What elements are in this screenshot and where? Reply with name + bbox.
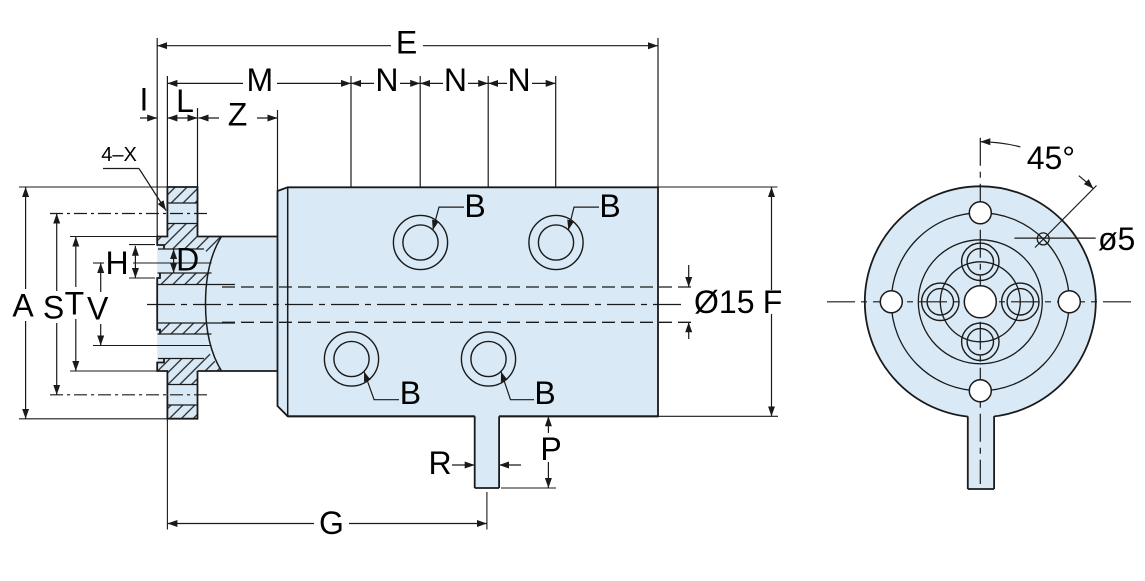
svg-text:4–X: 4–X bbox=[101, 144, 137, 166]
hatching: flange ring bottom bbox=[167, 405, 197, 419]
leader line ø5 bbox=[1014, 237, 1095, 239]
internal bore line D2 top bbox=[158, 333, 212, 335]
svg-text:P: P bbox=[540, 431, 561, 467]
neck top and bottom edges bbox=[198, 236, 278, 238]
leader 4-X bbox=[103, 168, 139, 170]
internal bore line V top (gap at H label) bbox=[93, 262, 104, 264]
small hole ø5 at 45deg bbox=[1037, 233, 1049, 245]
vertical centerline (right view) bbox=[979, 138, 981, 484]
counterbored hole B bottom-left bbox=[324, 332, 378, 386]
extension line G right (pipe center) bbox=[486, 492, 488, 530]
svg-text:B: B bbox=[534, 375, 555, 411]
bolt hole centerline top (dash-dot) bbox=[50, 213, 209, 215]
leader B bottom-left bbox=[364, 372, 399, 400]
extension line x167.4 bbox=[166, 76, 168, 187]
flange outer circle bbox=[865, 186, 1096, 417]
dimension F line bbox=[771, 187, 773, 290]
body bottom edge (interrupted at pipe) bbox=[288, 415, 475, 417]
extension line H top bbox=[129, 244, 155, 246]
dimension D double arrow bbox=[173, 249, 175, 273]
bottom port pipe (left view) bbox=[475, 413, 499, 488]
svg-text:Z: Z bbox=[228, 97, 248, 133]
45 degree radial line bbox=[1035, 186, 1097, 248]
extension line A top bbox=[19, 186, 167, 188]
internal bore step line lower bbox=[158, 322, 235, 324]
svg-text:V: V bbox=[87, 291, 109, 327]
hidden bore line top (dashed) bbox=[222, 286, 693, 288]
extension line G left bbox=[166, 420, 168, 530]
counterbored hole B bottom-right bbox=[461, 332, 515, 386]
dimension M line bbox=[167, 82, 243, 84]
counterbore hole W bbox=[922, 283, 959, 320]
extension line x658 (body right plane) bbox=[657, 38, 659, 187]
leader B top-left bbox=[433, 207, 464, 230]
horizontal centerline (right view) bbox=[827, 301, 1133, 303]
counterbored hole B top-left bbox=[393, 215, 447, 269]
dimension T line bbox=[75, 237, 77, 288]
hatching: collar top band bbox=[157, 237, 221, 256]
main body fill with chamfered left corners bbox=[278, 187, 659, 416]
port circle bbox=[940, 262, 1020, 342]
flange outline edges bbox=[157, 187, 197, 419]
flange slab fill bbox=[157, 187, 197, 419]
boss circle bbox=[918, 240, 1042, 364]
extension line A bottom bbox=[19, 418, 167, 420]
hatching: flange ring top bbox=[167, 187, 197, 203]
mounting bolt hole bottom bbox=[969, 380, 991, 402]
svg-text:E: E bbox=[396, 24, 417, 60]
counterbored hole B top-right bbox=[529, 215, 583, 269]
extension line x157.2 (flange face plane) bbox=[156, 38, 158, 237]
svg-text:D: D bbox=[176, 242, 199, 278]
dimension S line bbox=[56, 214, 58, 292]
svg-text:M: M bbox=[246, 62, 273, 98]
extension line x420.2 bbox=[419, 76, 421, 187]
svg-text:B: B bbox=[599, 188, 620, 224]
internal bore line D top bbox=[158, 248, 204, 250]
extension line x197.5 bbox=[197, 108, 199, 187]
svg-text:A: A bbox=[12, 288, 34, 324]
dimension L line bbox=[167, 117, 197, 119]
bolt circle bbox=[891, 213, 1069, 391]
mounting bolt hole right bbox=[1058, 291, 1080, 313]
main centerline (dash-dot) bbox=[147, 304, 686, 306]
svg-text:B: B bbox=[400, 375, 421, 411]
hidden bore line bottom (dashed) bbox=[222, 321, 693, 323]
svg-text:N: N bbox=[507, 62, 530, 98]
dimension Ø15 arrows bbox=[688, 265, 690, 287]
dimension I line bbox=[140, 117, 157, 119]
leader B top-right bbox=[568, 207, 599, 230]
internal bore step line upper bbox=[158, 284, 235, 286]
flange bolt hole edges top bbox=[167, 202, 197, 204]
pipe (right view) bbox=[968, 410, 994, 489]
svg-text:H: H bbox=[105, 245, 128, 281]
internal bore line V bottom bbox=[93, 345, 212, 347]
extension line x277.5 bbox=[277, 110, 279, 191]
svg-text:N: N bbox=[375, 62, 398, 98]
hatching: bore band lower bbox=[159, 323, 208, 334]
svg-text:S: S bbox=[43, 290, 64, 326]
dimension E line bbox=[157, 45, 391, 47]
svg-text:G: G bbox=[319, 505, 344, 541]
svg-text:F: F bbox=[763, 284, 783, 320]
svg-text:N: N bbox=[444, 62, 467, 98]
svg-text:R: R bbox=[428, 445, 451, 481]
extension line x488.2 bbox=[487, 76, 489, 187]
counterbore hole N bbox=[962, 243, 999, 280]
chamfer edge line on body bbox=[287, 187, 289, 416]
extension line H bottom bbox=[129, 277, 155, 279]
svg-text:45°: 45° bbox=[1027, 140, 1075, 176]
mounting bolt hole top bbox=[969, 202, 991, 224]
dimension N2 line bbox=[420, 82, 443, 84]
counterbore hole S bbox=[962, 323, 999, 360]
bolt hole centerline bottom (dash-dot) bbox=[50, 394, 209, 396]
svg-text:Ø15: Ø15 bbox=[694, 284, 754, 320]
mounting bolt hole left bbox=[880, 291, 902, 313]
ogee transition curve on flange hub bbox=[206, 237, 222, 372]
extension line P bottom / pipe bottom extended bbox=[501, 487, 556, 489]
internal bore line D2 bottom bbox=[158, 358, 204, 360]
45 degree dimension arc bbox=[980, 142, 1020, 147]
hatching: flange ring below hub bbox=[167, 371, 197, 385]
svg-text:L: L bbox=[176, 83, 194, 119]
extension line T bottom bbox=[70, 370, 157, 372]
dimension R arrows bbox=[452, 464, 475, 466]
dimension Z line bbox=[199, 117, 220, 119]
counterbore hole E bbox=[1002, 283, 1039, 320]
dimension A line bbox=[25, 187, 27, 289]
dimension G line bbox=[167, 523, 314, 525]
extension line x555.7 bbox=[555, 76, 557, 187]
dimension H double arrow bbox=[134, 246, 136, 278]
svg-text:I: I bbox=[140, 82, 149, 118]
dimension V line bbox=[100, 263, 102, 292]
hatching: collar bottom band bbox=[157, 353, 221, 372]
dimension N3 line bbox=[488, 82, 507, 84]
svg-text:T: T bbox=[65, 286, 85, 322]
dimension P line bbox=[547, 416, 549, 433]
hatching: bore band upper bbox=[159, 273, 208, 285]
svg-text:ø5: ø5 bbox=[1098, 221, 1135, 257]
dimension N1 line bbox=[351, 82, 374, 84]
internal bore line D bottom bbox=[158, 272, 212, 274]
extension line T top bbox=[70, 236, 157, 238]
flange bolt hole edges bottom bbox=[167, 384, 197, 386]
hatching: flange ring above hub bbox=[167, 224, 197, 237]
leader B bottom-right bbox=[501, 372, 534, 400]
extension line F bottom bbox=[658, 415, 778, 417]
svg-text:B: B bbox=[464, 188, 485, 224]
extension line F top bbox=[658, 186, 778, 188]
center hole bbox=[964, 286, 996, 318]
neck fill between flange and body bbox=[198, 237, 278, 372]
extension line x351 bbox=[350, 76, 352, 187]
